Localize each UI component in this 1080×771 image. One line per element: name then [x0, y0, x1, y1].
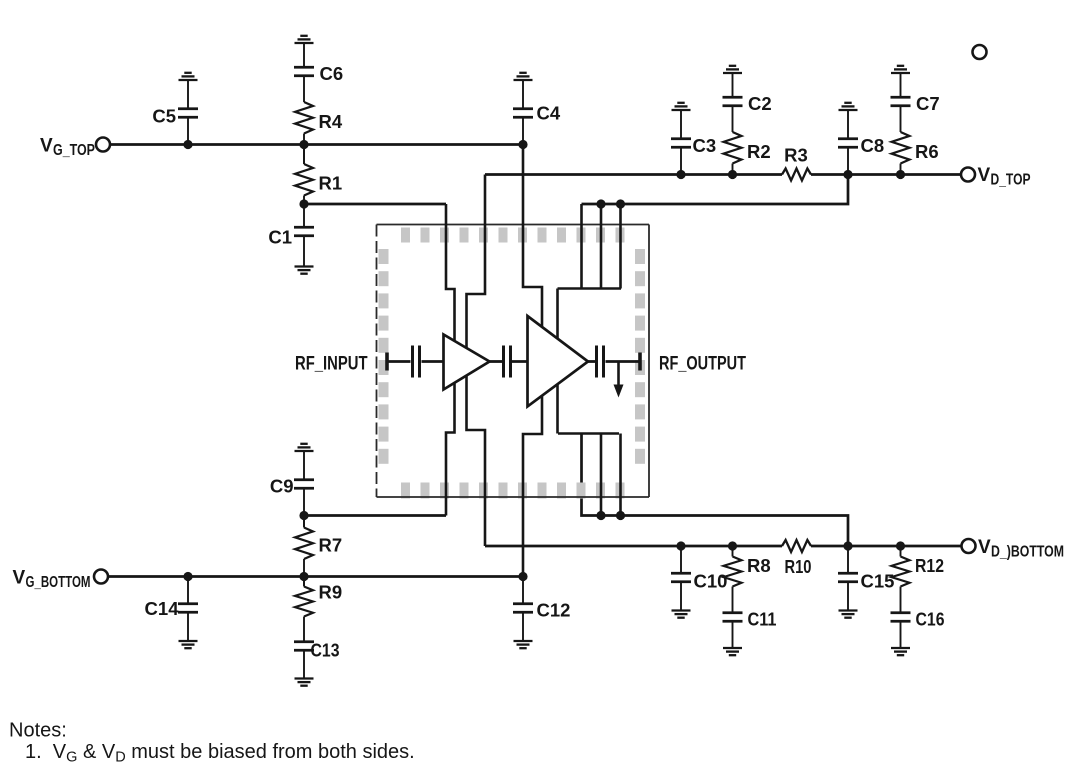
wire C9 rail — [304, 514, 446, 517]
wire VG_TOP rail — [111, 143, 524, 146]
svg-text:C2: C2 — [748, 93, 772, 114]
resistor R2 — [732, 164, 734, 175]
ground below C16 — [900, 622, 902, 648]
node C3 junction — [676, 170, 685, 179]
node C9 junction — [299, 511, 308, 520]
svg-text:C9: C9 — [270, 476, 294, 497]
capacitor C9 — [303, 488, 305, 515]
node VG_TOP/R4 junction — [299, 140, 308, 149]
capacitor C3 — [680, 147, 682, 174]
capacitor C8 — [847, 147, 849, 174]
node C15 junction — [843, 541, 852, 550]
svg-text:G_BOTTOM: G_BOTTOM — [26, 574, 91, 591]
wire VD_TOP rail left — [485, 173, 782, 176]
resistor R7 — [303, 516, 305, 528]
node R1 bias junction — [299, 199, 308, 208]
wire amp1 drain feed — [467, 175, 486, 547]
capacitor C2 — [732, 106, 734, 132]
node VG_BOTTOM/C14 junction — [183, 572, 192, 581]
wire R1 bias rail — [304, 203, 446, 206]
ground below C13 — [295, 679, 314, 686]
wire amp2 drain feed top bar — [558, 287, 622, 290]
node R2 junction — [728, 170, 737, 179]
wire drain vertical 2 — [600, 204, 603, 289]
svg-text:R4: R4 — [319, 111, 343, 132]
ground below C14 — [187, 613, 189, 641]
ground above C3 — [680, 111, 682, 139]
ground below C12 — [522, 613, 524, 641]
terminal VG_TOP — [96, 138, 110, 152]
wire VD_BOTTOM rail left — [485, 545, 782, 548]
decorative circle — [973, 45, 987, 59]
svg-text:R10: R10 — [785, 556, 812, 577]
capacitor C10 — [680, 546, 682, 573]
capacitor C5 — [187, 117, 189, 144]
ground above C8 — [847, 111, 849, 139]
svg-text:C3: C3 — [693, 135, 717, 156]
node top bias junction 1 — [596, 199, 605, 208]
capacitor C11 — [732, 587, 734, 613]
wire amp2 drain feed bottom bar — [558, 432, 619, 435]
wire RF input — [389, 360, 411, 363]
capacitor C4 — [522, 117, 524, 144]
capacitor input coupling — [411, 346, 414, 378]
wire VD_BOTTOM rail right — [811, 545, 961, 548]
svg-text:C13: C13 — [311, 640, 340, 661]
capacitor interstage coupling — [502, 346, 505, 378]
amplifier stage A1 — [444, 335, 490, 390]
svg-text:C15: C15 — [861, 571, 895, 592]
svg-text:C11: C11 — [748, 609, 777, 630]
svg-text:C14: C14 — [145, 598, 180, 619]
svg-text:V: V — [978, 537, 991, 558]
RF input tick — [385, 353, 389, 371]
svg-text:C7: C7 — [916, 93, 940, 114]
node C10 junction — [676, 541, 685, 550]
svg-text:R1: R1 — [319, 173, 343, 194]
node VG_BOTTOM/R7 junction — [299, 572, 308, 581]
ground below C10 — [680, 582, 682, 610]
svg-text:V: V — [40, 136, 53, 157]
svg-text:RF_INPUT: RF_INPUT — [295, 353, 368, 375]
node R8 junction — [728, 541, 737, 550]
svg-text:R6: R6 — [915, 141, 939, 162]
svg-text:C10: C10 — [694, 571, 728, 592]
svg-text:RF_OUTPUT: RF_OUTPUT — [659, 353, 746, 375]
wire RF output — [606, 360, 641, 363]
svg-text:1. VG & VD must be biased fro: 1. VG & VD must be biased from both side… — [25, 741, 415, 766]
chip pads — [401, 228, 410, 243]
ground below C1 — [295, 267, 314, 274]
svg-text:C8: C8 — [861, 135, 885, 156]
ground below C11 — [732, 622, 734, 648]
chip package outline U1 — [377, 225, 650, 498]
wire drain vertical 3 — [619, 204, 622, 289]
svg-text:Notes:: Notes: — [9, 720, 67, 742]
wire drain vertical 1 — [580, 204, 583, 289]
wire to amp1 — [422, 360, 446, 363]
wire top bias rail — [582, 175, 849, 205]
ground below C15 — [847, 582, 849, 610]
node bottom bias junction 2 — [616, 511, 625, 520]
terminal VD_BOTTOM — [962, 539, 976, 553]
wire drain vertical 5 — [619, 434, 622, 516]
wire cap to amp2 — [512, 360, 529, 363]
capacitor output coupling — [595, 346, 598, 378]
svg-text:C6: C6 — [320, 63, 344, 84]
svg-text:C12: C12 — [537, 600, 571, 621]
terminal VD_TOP — [961, 168, 975, 182]
wire drain vertical 4 — [600, 434, 603, 516]
capacitor C12 — [522, 577, 524, 604]
resistor R9 — [303, 577, 305, 587]
RF output tick — [638, 353, 642, 371]
resistor R12 — [900, 546, 902, 557]
capacitor C6 — [303, 76, 305, 102]
node C8 junction — [843, 170, 852, 179]
capacitor C13 — [303, 617, 305, 642]
ground above C5 — [187, 81, 189, 109]
svg-text:C1: C1 — [268, 227, 292, 248]
amplifier stage A2 — [528, 316, 589, 407]
svg-text:C16: C16 — [916, 609, 945, 630]
terminal VG_BOTTOM — [94, 570, 108, 584]
resistor R3 — [782, 169, 811, 181]
svg-text:R12: R12 — [915, 555, 944, 576]
capacitor C14 — [187, 577, 189, 604]
arrow output reference — [617, 362, 620, 386]
resistor R1 — [303, 145, 305, 165]
svg-text:C4: C4 — [537, 103, 561, 124]
wire VG_BOTTOM rail — [109, 575, 524, 578]
node top bias junction 2 — [616, 199, 625, 208]
wire amp1 to cap — [489, 360, 502, 363]
resistor R10 — [782, 540, 811, 552]
resistor R8 — [732, 546, 734, 557]
wire amp2 gate feed — [523, 145, 542, 577]
capacitor C1 — [303, 204, 305, 227]
svg-text:D_)BOTTOM: D_)BOTTOM — [991, 544, 1064, 561]
ground above C4 — [522, 81, 524, 109]
svg-text:R7: R7 — [319, 535, 343, 556]
node VG_TOP/C5 junction — [183, 140, 192, 149]
capacitor C16 — [900, 587, 902, 613]
node bottom bias junction 1 — [596, 511, 605, 520]
svg-text:R8: R8 — [747, 555, 771, 576]
svg-text:V: V — [978, 165, 991, 186]
wire amp2 drain feed through — [556, 289, 559, 434]
wire VD_TOP rail right — [811, 173, 961, 176]
resistor R6 — [900, 164, 902, 175]
node VG_BOTTOM/C12 junction — [518, 572, 527, 581]
svg-text:G_TOP: G_TOP — [53, 142, 95, 159]
resistor R4 — [303, 134, 305, 145]
wire amp1 gate feed — [446, 204, 455, 516]
node R12 junction — [896, 541, 905, 550]
wire bottom bias rail — [582, 434, 849, 547]
svg-text:V: V — [13, 568, 26, 589]
wire amp2 to cap — [588, 360, 596, 363]
capacitor C15 — [847, 546, 849, 573]
svg-text:R2: R2 — [747, 141, 771, 162]
svg-text:R3: R3 — [784, 145, 808, 166]
ground above C2 — [732, 74, 734, 97]
svg-text:C5: C5 — [152, 106, 176, 127]
capacitor C7 — [900, 106, 902, 132]
ground above C9 — [303, 452, 305, 480]
node VG_TOP/C4 junction — [518, 140, 527, 149]
ground above C6 — [303, 44, 305, 67]
svg-text:R9: R9 — [319, 582, 343, 603]
ground above C7 — [900, 74, 902, 97]
node R6 junction — [896, 170, 905, 179]
svg-text:D_TOP: D_TOP — [991, 172, 1031, 189]
